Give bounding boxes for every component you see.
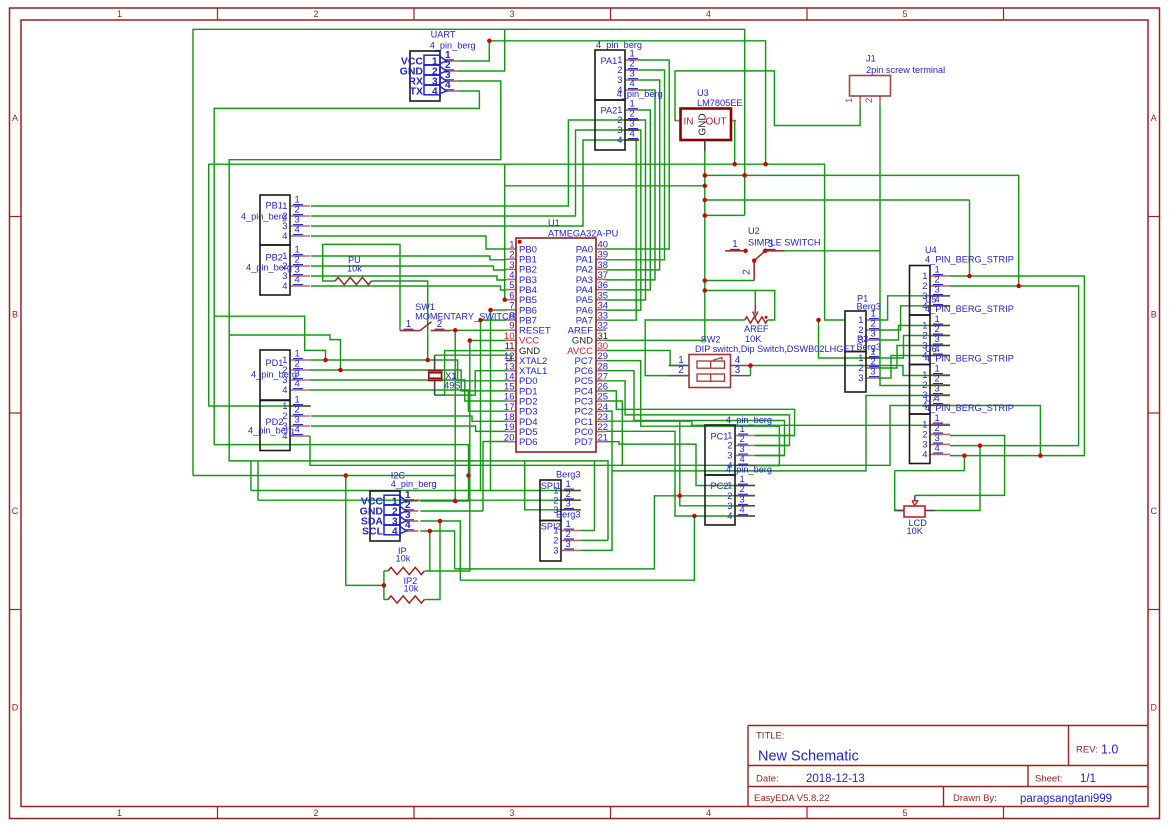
wire: U1 pin22 staircase to PC2 pin4 (606, 431, 755, 516)
svg-text:2pin screw terminal: 2pin screw terminal (866, 65, 945, 75)
svg-text:4: 4 (405, 520, 411, 531)
dip switch SW2 DSWB02LHGET (669, 334, 856, 387)
connector U7 (4_PIN_BERG_STRIP) (910, 394, 1014, 464)
switch U2 SIMPLE SWITCH (725, 226, 880, 280)
svg-text:4: 4 (392, 526, 398, 537)
svg-text:SCL: SCL (362, 526, 384, 538)
svg-text:4: 4 (740, 504, 745, 515)
wire: SPI1 pin2 riser (257, 461, 259, 500)
svg-text:4: 4 (282, 230, 287, 241)
svg-text:C: C (1150, 506, 1157, 516)
svg-text:4_pin_berg: 4_pin_berg (391, 479, 437, 489)
wire: PB5 net: U1 pin6 up over chip, down to PD2 pin1 (209, 164, 506, 406)
wire: U1 pin21 staircase to PC2 pin1 (606, 442, 755, 486)
wire: PA1 pin2 to U1 pin39 (606, 70, 665, 260)
connector P2 (Berg3) (845, 334, 881, 392)
svg-text:PB1: PB1 (266, 201, 283, 211)
svg-text:PD6: PD6 (519, 437, 537, 448)
wire: PB2 pin2 to U1 pin3 (311, 266, 506, 270)
svg-text:X1: X1 (445, 371, 456, 381)
svg-text:U2: U2 (748, 226, 760, 236)
wire: IP left lead (384, 570, 388, 572)
connector UART (4_pin_berg female) (430, 30, 476, 51)
wire: PD1 pin2 to U1 pin15 (310, 370, 506, 391)
wire: SW2 pins 3-4 bridge (750, 366, 752, 376)
svg-text:DIP switch,Dip Switch,DSWB02LH: DIP switch,Dip Switch,DSWB02LHGET (695, 344, 856, 354)
svg-text:5: 5 (902, 808, 907, 818)
svg-text:A: A (12, 113, 18, 123)
wire: U3 OUT down to east rail (734, 121, 736, 165)
wire: I2C pin4 SCL to east riser (420, 531, 454, 569)
svg-text:PC1: PC1 (711, 432, 729, 442)
svg-text:4_pin_berg: 4_pin_berg (726, 415, 772, 425)
svg-text:1.0: 1.0 (1101, 743, 1118, 757)
svg-text:2: 2 (864, 98, 875, 103)
wire: reset net vertical down to I2C pin1 run (454, 330, 456, 501)
connector PD2 (4_pin_berg) (248, 394, 310, 451)
svg-text:4: 4 (740, 453, 745, 464)
wire: vertical drop x=969.5 (969, 200, 971, 276)
svg-text:3: 3 (509, 9, 514, 19)
wire: SPI2 pin3 to U6 pin3 (581, 396, 950, 551)
svg-text:2: 2 (437, 319, 442, 330)
connector SPI1 (Berg3) (540, 469, 581, 520)
svg-text:10k: 10k (396, 553, 411, 563)
svg-text:D: D (12, 703, 19, 713)
wire: PB1 pin2 to PA2 pin3 crossover (311, 130, 639, 216)
wire: SPI1 pin3 riser from that run (525, 461, 581, 510)
svg-text:LM7805EE: LM7805EE (697, 98, 742, 108)
svg-text:4: 4 (295, 224, 300, 235)
wire: RESET into U1 pin9 / SW1 pin2 (451, 329, 507, 331)
connector I2C (4_pin_berg female) (391, 470, 437, 489)
svg-text:3: 3 (858, 372, 863, 383)
svg-text:2: 2 (313, 808, 318, 818)
svg-text:Berg3: Berg3 (857, 302, 882, 312)
wire: PB2 pin1 to U1 pin2 (311, 256, 506, 260)
svg-text:EasyEDA V5.8.22: EasyEDA V5.8.22 (754, 793, 830, 804)
svg-text:IN: IN (684, 117, 694, 128)
svg-text:PD7: PD7 (575, 437, 593, 448)
svg-text:Berg3: Berg3 (857, 342, 882, 352)
svg-text:4: 4 (295, 274, 300, 285)
wire: rail y=215.4 to east zigzag (705, 214, 745, 216)
IC U1 ATMEGA32A-PU (504, 218, 618, 452)
connector J1 2pin screw terminal (844, 54, 945, 106)
svg-text:4: 4 (295, 424, 300, 435)
wire: P1 pin1 to U4 pin3 (880, 296, 950, 320)
wire: AREF left lead to SW2 pin2 riser (645, 320, 745, 376)
svg-text:U3: U3 (697, 88, 709, 98)
svg-text:U5: U5 (925, 295, 937, 305)
wire: rail y=200 to U4 pin1 drop2 (705, 199, 970, 201)
wire: U1 pin25 down to PD2 pin4 run (606, 401, 622, 465)
svg-text:U6: U6 (925, 344, 937, 354)
wire: U1 pin28 staircase to PC1 pin3 (606, 371, 785, 456)
svg-text:5: 5 (902, 9, 907, 19)
U1 pin1 marker dot (518, 240, 522, 244)
wire: PA2 pin3 to U1 pin34 (606, 130, 641, 310)
potentiometer AREF 10K (744, 306, 769, 344)
wire: U7 pin3 branch down to LCD right lead (935, 446, 980, 511)
svg-text:J1: J1 (866, 54, 876, 64)
wire: SW2 pin4 to U6 pin1 (751, 366, 951, 376)
wire: PC2 pin4 long branch to lower-left (460, 516, 694, 580)
wire: PC2 pin2 feed loop from SCL riser (455, 496, 755, 569)
wire: VCC into U1 pin10 (470, 340, 506, 342)
wire: U1 pin27 staircase to PC1 pin2 (606, 381, 790, 446)
svg-text:PA1: PA1 (601, 56, 618, 66)
wire: U1 pin11 GND loop to crystal bottom (435, 351, 506, 396)
resistor IP2 10k (388, 576, 424, 603)
wire: U7 pin4 branch down to LCD rail (963, 456, 965, 471)
wire: UART pin3 long loop left-down to SPI1.3 (229, 81, 608, 540)
svg-text:GND: GND (698, 113, 709, 135)
svg-text:4: 4 (922, 449, 927, 460)
wire: SPI2 pin1 riser to bus run (581, 461, 595, 531)
wire: J1 pin1 loop to U3 IN (675, 71, 860, 126)
connector U5 (4_PIN_BERG_STRIP) (910, 295, 1014, 365)
connector U6 (4_PIN_BERG_STRIP) (910, 344, 1014, 414)
wire: PB2 pin3 to U1 pin4 (311, 276, 506, 280)
svg-text:PC2: PC2 (711, 481, 729, 491)
wire: IP/IP2 left vertical (383, 571, 385, 600)
wire: U1 pin30 AVCC to SW2 pin1 (606, 351, 689, 366)
wire: PD1 pin1 to U1 pin14 (310, 360, 506, 381)
wire: PB1 pin4 to U1 pin1 PB0 (311, 236, 506, 249)
svg-text:1/1: 1/1 (1080, 773, 1096, 785)
svg-text:Drawn By:: Drawn By: (953, 793, 997, 804)
svg-text:21: 21 (598, 432, 609, 443)
connector SPI2 (Berg3) (540, 509, 581, 561)
wire: branch to U7 pin1 (680, 421, 950, 425)
wire: P1 pin3 to U5 pin1 (880, 326, 950, 341)
svg-text:PA2: PA2 (601, 106, 618, 116)
svg-text:3: 3 (509, 808, 514, 818)
svg-text:B: B (1151, 310, 1157, 320)
connector PB2 (4_pin_berg) (246, 244, 310, 295)
connector PB1 (4_pin_berg) (241, 194, 310, 245)
wire: IP right lead riser to I2C pin4 node (429, 531, 431, 571)
wire net: top-left big loop / UART pin2 net (193, 29, 745, 475)
wire: PD1 pin3 to U1 pin16 (310, 380, 506, 401)
wire: PB2 pin4 to U1 pin5 (311, 286, 506, 290)
wire: P1 pin2 to U4 pin4 (880, 306, 950, 330)
wire: J1 pin2 long drop to U6 pin2 (880, 105, 950, 385)
wire: rail y=185.8 westward to PB5 riser (505, 185, 705, 187)
wire: U1 pin20 down to SPI1 pin2 run (483, 442, 506, 512)
wire: east rail y=164.5 over to P1 drop (505, 164, 845, 320)
wire: AREF wiper feed (754, 291, 756, 306)
svg-text:4: 4 (282, 384, 287, 395)
wire: IP right lead to VCC net vertical (425, 341, 470, 572)
svg-text:TX: TX (410, 86, 423, 98)
wire: PA2 pin4 to U1 pin33 (606, 140, 636, 320)
svg-text:PB2: PB2 (266, 252, 283, 262)
wire: LCD wiper east run up to U7 pin2 (915, 436, 1005, 496)
connector PA2 (4_pin_berg) (595, 89, 663, 150)
svg-text:4_pin_berg: 4_pin_berg (241, 211, 287, 221)
svg-text:4: 4 (706, 808, 711, 818)
wire: UART pin2 to top rail (459, 29, 505, 71)
svg-text:3: 3 (871, 328, 876, 339)
wire: P2 feed from east rail (819, 320, 881, 358)
wire: U4 pin1 long loop east down to U7 pin4 row (950, 276, 1084, 456)
svg-text:3: 3 (768, 239, 774, 250)
resistor PU 10k (335, 255, 371, 284)
svg-text:U4: U4 (925, 245, 937, 255)
svg-text:3: 3 (566, 538, 571, 549)
wire: branch down to IP/IP2 left ends (346, 476, 384, 586)
svg-text:paragsangtani999: paragsangtani999 (1020, 793, 1112, 805)
svg-text:4: 4 (282, 430, 287, 441)
svg-text:U7: U7 (925, 394, 937, 404)
wire: IP2 left lead (384, 599, 388, 601)
wire: PA1 pin3 to U1 pin38 (606, 80, 660, 270)
svg-text:4: 4 (630, 128, 635, 139)
wire: PA1 pin1 to U1 pin40 (606, 60, 669, 249)
wire: U1 pin23 staircase to PC2 pin3 (606, 421, 755, 506)
resistor IP 10k (388, 546, 424, 574)
wire: second top rail to right, down to east trunk (489, 41, 765, 164)
svg-text:10k: 10k (347, 263, 362, 273)
wire: SPI1 pin1 long feed from left (251, 490, 581, 492)
svg-text:New Schematic: New Schematic (758, 749, 859, 765)
wire: PB6 net vertical down to SPI1 pin1 run (490, 310, 492, 491)
svg-text:4: 4 (935, 442, 940, 453)
svg-text:4: 4 (630, 78, 635, 89)
svg-text:4: 4 (282, 280, 287, 291)
svg-text:U1: U1 (548, 218, 560, 228)
wire: PA1 pin4 to U1 pin37 (606, 90, 655, 280)
svg-text:Date:: Date: (756, 774, 779, 785)
wire: PB7 into U1 pin8 (481, 319, 507, 321)
regulator U3 LM7805EE (675, 88, 743, 151)
svg-text:3: 3 (735, 365, 741, 376)
wire: PD2 pin3 to U1 pin19 (311, 426, 506, 431)
svg-text:1: 1 (732, 239, 737, 250)
wire: I2C pin3 SDA to east riser (420, 521, 460, 580)
wire: SPI1 pin2 long feed from left (258, 499, 581, 501)
svg-text:10K: 10K (745, 334, 762, 344)
wire: PD2 pin4 long run to U6 pin4 (310, 406, 950, 466)
wire: SW1 pin1 riser and loop to PU resistor (323, 244, 400, 330)
svg-text:4: 4 (295, 378, 300, 389)
svg-text:SW2: SW2 (701, 334, 721, 344)
svg-text:4_pin_berg: 4_pin_berg (430, 40, 476, 50)
svg-text:AREF: AREF (744, 324, 769, 334)
svg-text:10k: 10k (404, 583, 419, 593)
svg-text:MOMENTARY_SWITCH: MOMENTARY_SWITCH (415, 312, 515, 322)
wire: U2 pin2 down to trunk (705, 280, 754, 282)
wire: P2 pin1 to U5 pin2 (880, 336, 950, 359)
svg-text:3: 3 (553, 545, 558, 556)
svg-text:SW1: SW1 (415, 302, 435, 312)
wire: SPI1 pin1 feed riser to UART3 run (250, 461, 252, 491)
svg-text:A: A (1151, 113, 1157, 123)
wire: IP2 right lead up to I2C pin3 node (425, 521, 440, 600)
wire: crystal top to XTAL2 pin12 (435, 355, 511, 360)
wire: PD2 pin2 to U1 pin18 (311, 416, 506, 421)
wire: PD1 pin4 to U1 pin17 (310, 390, 506, 411)
svg-text:ATMEGA32A-PU: ATMEGA32A-PU (548, 228, 618, 238)
svg-text:REV:: REV: (1076, 745, 1098, 756)
svg-text:4: 4 (727, 510, 732, 521)
svg-text:2: 2 (742, 269, 753, 274)
wire: PB1 pin1 to PA2 pin2 crossover (311, 120, 639, 206)
wire: left vertical to IP resistor divider (193, 475, 455, 477)
wire: PB6 net: U1 pin7 (491, 309, 507, 311)
svg-text:4_pin_berg: 4_pin_berg (726, 465, 772, 475)
svg-text:D: D (1150, 703, 1157, 713)
wire: U1 pin29 staircase to PC1 pin4 (606, 361, 779, 466)
wire: U4 pin2 loop east down to U7 pin3 row (950, 286, 1079, 446)
wire: LCD left lead riser (895, 471, 904, 511)
connector P1 (Berg3) (845, 294, 881, 352)
wire: U1 pin31 GND to trunk (606, 339, 705, 341)
svg-text:1: 1 (844, 98, 855, 103)
svg-text:1: 1 (117, 808, 122, 818)
svg-text:2: 2 (678, 365, 683, 376)
wire: AREF loop from trunk (705, 291, 775, 321)
wire: P2 pin2 to U5 pin3 (880, 346, 950, 369)
svg-text:20: 20 (504, 432, 515, 443)
wire: XTAL1 pin13 loop to crystal bottom (435, 371, 506, 395)
wire: PB1 pin3 to PA2 pin4 crossover (311, 140, 639, 226)
svg-text:3: 3 (871, 366, 876, 377)
wire: SPI2 pin2 stub to riser (581, 539, 608, 541)
wire: UART pin4 loop to I2C pin1 (214, 91, 479, 501)
svg-text:4: 4 (432, 86, 438, 97)
svg-text:UART: UART (431, 30, 456, 40)
svg-text:2: 2 (313, 9, 318, 19)
wire: PU right end down to PD1 pin1 run (372, 281, 428, 360)
wire: feed Z-path to PD1 pin1 from left drop (214, 316, 325, 360)
wire: PA2 pin2 to U1 pin35 (606, 120, 646, 300)
wire: PA2 pin1 to U1 pin36 (606, 110, 650, 290)
connector PC1 (4_pin_berg) (705, 415, 772, 475)
svg-text:2018-12-13: 2018-12-13 (806, 773, 865, 785)
svg-text:OUT: OUT (706, 117, 727, 128)
connector PC2 (4_pin_berg) (705, 465, 772, 525)
wire: I2C pin2 GND run to U1 pin20 riser (420, 510, 483, 512)
title block (748, 726, 1148, 807)
svg-text:3: 3 (566, 497, 571, 508)
svg-text:SIMPLE SWITCH: SIMPLE SWITCH (748, 237, 821, 247)
svg-text:1: 1 (406, 319, 411, 330)
connector PD1 (4_pin_berg) (251, 348, 310, 400)
svg-text:4_pin_berg: 4_pin_berg (596, 40, 642, 50)
potentiometer LCD 10K (895, 495, 935, 536)
wire: UART pin1 up to second rail (459, 41, 490, 61)
wire: rail y=175.4 across to U4 pin2 drop (705, 175, 1019, 286)
svg-text:10K: 10K (907, 526, 924, 536)
svg-text:1: 1 (117, 9, 122, 19)
svg-text:Sheet:: Sheet: (1035, 774, 1062, 785)
wire: U1 pin26 staircase to PC1 pin1 (606, 391, 795, 436)
svg-text:C: C (12, 506, 19, 516)
wire: PC1 pin stubs to risers (755, 435, 795, 437)
wire: U1 pin24 down joining SPI2 pin3 run (606, 411, 612, 471)
svg-text:PD1: PD1 (266, 358, 284, 368)
wire: feed Z-path to PD1 pin2 from UART3 drop (229, 335, 340, 370)
svg-text:4_pin_berg: 4_pin_berg (617, 89, 663, 99)
wire: PB7 net down to SPI1 pin1 run (480, 320, 482, 490)
connector PA1 (4_pin_berg) (595, 40, 642, 100)
svg-text:B: B (12, 310, 18, 320)
svg-text:49S: 49S (444, 381, 460, 391)
svg-text:4: 4 (445, 80, 451, 91)
switch SW1 MOMENTARY_SWITCH (400, 302, 515, 331)
svg-text:4: 4 (706, 9, 711, 19)
wire: LCD top rail y=470.7 (895, 470, 965, 472)
connector U4 (4_PIN_BERG_STRIP) (910, 245, 1014, 315)
crystal X1 49S (428, 355, 461, 395)
svg-text:TITLE:: TITLE: (756, 731, 785, 742)
wire: P2 pin3 to U5 pin4 (880, 356, 950, 379)
wire: U6 pin4 row extension east down to U7 pin4 row (950, 406, 1040, 456)
wire: U3 GND trunk down (704, 151, 706, 340)
svg-text:4: 4 (617, 134, 622, 145)
